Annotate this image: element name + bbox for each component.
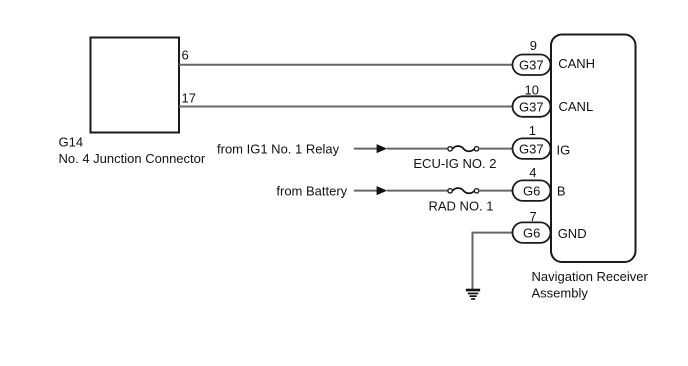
svg-text:GND: GND xyxy=(558,226,587,241)
svg-text:G6: G6 xyxy=(523,183,540,198)
arrowhead B feed xyxy=(377,186,388,195)
svg-text:G37: G37 xyxy=(519,58,544,73)
svg-text:ECU-IG NO. 2: ECU-IG NO. 2 xyxy=(413,156,496,171)
svg-text:G37: G37 xyxy=(519,141,544,156)
wire arrow to fuse xyxy=(387,190,448,192)
connector pin G37 pin 9 xyxy=(513,55,551,76)
fuse RAD NO. 1 xyxy=(448,188,479,193)
svg-text:G14: G14 xyxy=(59,135,84,150)
svg-text:4: 4 xyxy=(529,165,536,180)
svg-text:IG: IG xyxy=(557,143,571,158)
svg-text:9: 9 xyxy=(530,38,537,53)
svg-text:No. 4 Junction Connector: No. 4 Junction Connector xyxy=(59,151,206,166)
connector pin G6 pin 4 xyxy=(513,180,551,201)
svg-text:1: 1 xyxy=(529,123,536,138)
svg-text:7: 7 xyxy=(530,209,537,224)
svg-text:from IG1 No. 1 Relay: from IG1 No. 1 Relay xyxy=(217,141,340,156)
connector pin G37 pin 10 xyxy=(513,96,551,117)
svg-text:B: B xyxy=(557,184,566,199)
wire GND horizontal xyxy=(473,232,513,234)
svg-text:G6: G6 xyxy=(523,225,540,240)
wire battery to arrow xyxy=(354,190,378,192)
wire fuse to G37 pin 1 xyxy=(479,148,513,150)
fuse ECU-IG NO. 2 xyxy=(448,146,479,151)
wire pin 6 to G37 pin 9 xyxy=(179,64,513,66)
wire pin 17 to G37 pin 10 xyxy=(179,106,513,108)
svg-text:17: 17 xyxy=(182,91,196,106)
svg-text:10: 10 xyxy=(525,82,539,97)
connector pin G6 pin 7 xyxy=(513,222,551,243)
svg-text:from Battery: from Battery xyxy=(276,183,347,198)
svg-text:RAD NO. 1: RAD NO. 1 xyxy=(429,198,494,213)
wire fuse to G6 pin 4 xyxy=(479,190,513,192)
connector pin G37 pin 1 xyxy=(513,138,551,159)
wire GND vertical xyxy=(472,232,474,289)
arrowhead IG feed xyxy=(377,144,388,153)
junction connector G14 box xyxy=(91,38,180,133)
svg-text:Assembly: Assembly xyxy=(532,285,589,300)
svg-text:G37: G37 xyxy=(519,99,544,114)
wire arrow to fuse xyxy=(387,148,448,150)
svg-text:CANH: CANH xyxy=(558,56,595,71)
svg-text:6: 6 xyxy=(182,48,189,63)
svg-text:Navigation Receiver: Navigation Receiver xyxy=(532,269,649,284)
ground symbol xyxy=(466,289,480,300)
navigation receiver assembly box xyxy=(551,35,636,263)
wire relay to arrow xyxy=(354,148,378,150)
svg-text:CANL: CANL xyxy=(559,99,594,114)
